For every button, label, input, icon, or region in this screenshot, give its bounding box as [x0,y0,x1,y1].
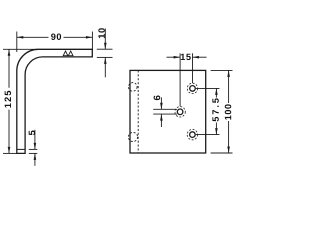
dim 100: extension line bottom [211,152,233,154]
dim 5: extension lines [29,148,38,150]
dim 15: left arrow [167,56,181,58]
dim 90: extension line left [16,32,18,53]
hidden hole upper (dashed circle) [129,83,138,92]
dim 100: label [225,104,232,119]
hole bottom-right [190,132,196,138]
dim 57.5: extension line from top hole [196,87,220,89]
dim 6: label [154,96,161,101]
dim 15: center line to middle hole [179,53,181,106]
dim 57.5: dimension line [215,88,217,97]
dim 15: center line to top hole [192,53,194,83]
dim 125: label [5,91,12,108]
dim 5: arrow below [34,153,36,165]
hole middle-left [177,109,183,115]
dim 6: arrow below [160,114,162,127]
dim 5: arrow above [34,130,36,150]
dim 90: label [51,33,61,40]
hidden hole lower (dashed circle) [128,132,137,141]
dim 57.5: extension line from bottom hole [196,134,220,136]
dim 100: arrow bottom [227,147,230,154]
dim 57.5: label [212,98,218,121]
hole top-right [190,86,196,92]
dim 90: arrow right [86,36,93,39]
dim 100: dimension line [228,70,230,103]
dim 100: extension line top [211,69,233,71]
dim 57.5: arrow top [215,88,218,95]
plate outline (front view) [130,70,206,153]
dim 57.5: arrow bottom [215,128,218,135]
dim 10: arrow above [104,29,106,50]
dim 125: arrow bottom [8,147,11,154]
dim 10: extension lines [97,48,113,50]
dim 125: dimension line [8,49,10,88]
dim 15: label [181,54,191,60]
dim 10: arrow below [104,57,106,77]
serration marks on arm [63,51,73,56]
dim 6: tangent extension lines [153,108,177,110]
dim 10: label [98,28,105,38]
dim 6: arrow above [160,98,162,110]
dim 125: extension line bottom [3,152,17,154]
plate hidden edge (dashed) [137,70,139,153]
bracket body outline (side view) [17,49,93,153]
bracket inner bottom line [17,148,25,150]
dim 90: extension line right [91,32,93,51]
dim 125: arrow top [8,49,11,56]
dim 125: extension line top [3,48,38,50]
dim 100: arrow top [227,70,230,77]
dim 90: arrow left [17,36,24,39]
dim 5: label [29,131,35,136]
dim 15: right arrow [193,56,207,58]
dim 90: dimension line [17,36,49,38]
